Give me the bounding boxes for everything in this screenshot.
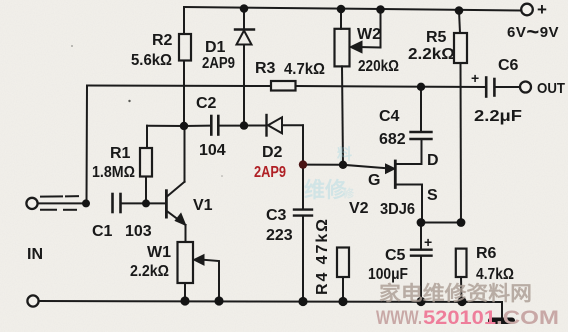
capacitor C4	[397, 87, 432, 164]
svg-text:D1: D1	[205, 39, 226, 56]
svg-text:料: 料	[337, 145, 352, 163]
svg-text:220kΩ: 220kΩ	[358, 58, 399, 75]
transistor V2	[343, 161, 422, 223]
node rail R4	[338, 297, 347, 306]
terminal OUT	[520, 82, 531, 93]
svg-text:682: 682	[379, 131, 406, 148]
ground	[488, 318, 515, 325]
svg-text:G: G	[368, 172, 380, 189]
capacitor C6	[486, 78, 519, 97]
svg-text:2AP9: 2AP9	[254, 164, 286, 181]
node gate left (reddish)	[299, 160, 307, 168]
diode D1	[235, 9, 254, 126]
wire to ground	[501, 302, 503, 318]
svg-text:D2: D2	[262, 144, 283, 161]
svg-text:D: D	[427, 152, 439, 169]
svg-text:C6: C6	[498, 57, 519, 74]
node base R1	[142, 199, 150, 207]
potentiometer W1	[178, 242, 220, 302]
svg-text:S: S	[427, 187, 438, 204]
resistor R6	[456, 249, 467, 302]
svg-text:维修: 维修	[304, 178, 347, 202]
potentiometer W2	[335, 9, 350, 165]
svg-text:C2: C2	[196, 95, 217, 112]
svg-text:2.2kΩ: 2.2kΩ	[408, 46, 455, 63]
wire gate node	[303, 164, 343, 166]
node input	[82, 199, 90, 207]
svg-text:V1: V1	[193, 197, 213, 214]
node rail W1	[180, 296, 189, 305]
svg-text:W2: W2	[357, 26, 381, 43]
svg-text:V2: V2	[349, 200, 369, 217]
terminal input top	[26, 198, 37, 209]
terminal input bottom	[27, 295, 38, 306]
svg-text:100μF: 100μF	[368, 266, 408, 283]
svg-text:C1: C1	[92, 223, 113, 240]
resistor R3	[271, 81, 296, 91]
svg-text:家电维修资料网: 家电维修资料网	[379, 281, 532, 305]
svg-text:223: 223	[266, 227, 293, 244]
svg-text:1.8MΩ: 1.8MΩ	[92, 164, 135, 181]
svg-text:520101: 520101	[423, 308, 496, 329]
wire source node	[421, 222, 461, 224]
wire top-left drop to R2	[183, 7, 185, 34]
svg-text:R2: R2	[152, 32, 173, 49]
svg-text:W1: W1	[147, 244, 171, 261]
resistor R2	[179, 34, 191, 61]
wire base	[146, 202, 165, 204]
wire bottom rail	[39, 301, 502, 302]
transistor V1	[166, 126, 185, 242]
svg-text:+: +	[537, 0, 547, 19]
node collector	[180, 122, 188, 130]
svg-text:R3: R3	[255, 60, 276, 77]
watermark line 2	[376, 308, 559, 329]
svg-text:4.7kΩ: 4.7kΩ	[284, 61, 325, 78]
node rail C5	[416, 297, 425, 306]
svg-text:4.7kΩ: 4.7kΩ	[476, 266, 514, 283]
svg-text:修: 修	[342, 186, 355, 200]
svg-text:IN: IN	[27, 246, 43, 263]
node top D1	[240, 4, 249, 13]
wire R4 branch	[337, 248, 349, 302]
cyan watermark remnants	[304, 145, 355, 202]
wire output line	[296, 86, 485, 87]
svg-text:C3: C3	[266, 207, 287, 224]
node rail C3	[298, 297, 307, 306]
node source right	[457, 218, 466, 227]
node top R5	[455, 6, 464, 15]
node rail R6	[457, 297, 466, 306]
node C2 D1	[240, 121, 248, 129]
svg-text:+: +	[424, 234, 432, 250]
node source left	[417, 218, 426, 227]
svg-text:R4 47kΩ: R4 47kΩ	[314, 219, 331, 295]
wire feedback line left	[87, 85, 271, 88]
capacitor C2	[184, 116, 241, 135]
wiper W2	[351, 10, 381, 53]
diode D2	[248, 115, 304, 136]
capacitor C5	[411, 223, 432, 302]
terminal V+	[521, 4, 533, 16]
svg-text:R6: R6	[476, 245, 497, 262]
svg-text:R1: R1	[110, 145, 131, 162]
svg-text:3DJ6: 3DJ6	[380, 201, 415, 218]
node top wiper	[376, 5, 385, 14]
node rail wiper	[214, 296, 223, 305]
svg-text:.COM: .COM	[496, 308, 559, 329]
resistor R1	[140, 126, 184, 204]
wire top rail	[184, 7, 521, 11]
speckle artifacts	[71, 45, 223, 177]
svg-text:OUT: OUT	[537, 80, 565, 97]
svg-text:R5: R5	[426, 29, 447, 46]
svg-text:C5: C5	[385, 247, 406, 264]
svg-text:2AP9: 2AP9	[202, 55, 235, 72]
wire R2 bottom to collector node	[183, 61, 185, 127]
svg-text:5.6kΩ: 5.6kΩ	[131, 52, 172, 69]
node gate right	[339, 161, 347, 169]
svg-text:103: 103	[125, 223, 152, 240]
wire feedback vertical to input node	[86, 86, 89, 204]
wire input	[38, 202, 86, 204]
svg-text:+: +	[471, 70, 479, 86]
node out C4	[417, 83, 425, 91]
svg-text:2.2kΩ: 2.2kΩ	[130, 263, 169, 280]
shield marks	[41, 196, 78, 210]
capacitor C3	[294, 125, 312, 301]
capacitor C1	[113, 194, 147, 212]
svg-text:104: 104	[199, 142, 226, 159]
svg-text:C4: C4	[379, 108, 400, 125]
svg-text:2.2μF: 2.2μF	[474, 108, 522, 125]
node top W2	[337, 5, 346, 14]
resistor R5	[454, 11, 467, 223]
svg-text:WWW.: WWW.	[376, 308, 422, 329]
